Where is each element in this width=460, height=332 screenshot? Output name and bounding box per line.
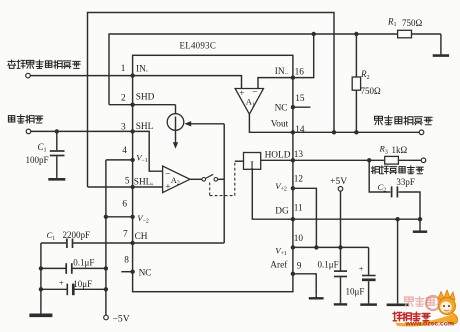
wire black level to pin3 SHL <box>31 130 133 132</box>
junction dot (DG ground 1) <box>395 217 399 221</box>
resistor R3 1kohm <box>385 156 399 164</box>
wire HOLD to C2 <box>369 160 390 192</box>
pin 6 number <box>122 199 127 209</box>
svg-text:13: 13 <box>294 150 304 160</box>
junction dot (Vout / feedback) <box>332 130 336 134</box>
wire R1 to ground drop <box>440 34 442 53</box>
svg-text:1: 1 <box>121 64 126 74</box>
wire A2 output <box>190 178 202 180</box>
label composite video input <box>8 60 80 68</box>
pin 10 number <box>294 234 304 244</box>
terminal composite video input <box>26 73 31 78</box>
svg-text:0.1μF: 0.1μF <box>318 259 339 269</box>
pin 13 number <box>294 150 304 160</box>
switch contact right <box>214 178 218 182</box>
pin 16 name IN- <box>275 67 289 78</box>
svg-text:IN.: IN. <box>136 65 148 75</box>
pin 8 name NC <box>139 269 152 279</box>
junction dot pin6 <box>130 215 134 219</box>
op-amp IC EL4093C box U1 <box>133 55 293 291</box>
terminal -5V <box>104 315 109 320</box>
junction dot pin5 <box>130 185 134 189</box>
svg-text:5: 5 <box>125 177 130 187</box>
pin 3 number <box>121 122 126 132</box>
pin 7 number <box>123 230 128 240</box>
label -5V <box>113 313 130 324</box>
junction dot pin14 <box>291 130 295 134</box>
label video signal output <box>375 116 433 125</box>
wire Vout row to output terminal <box>293 131 419 133</box>
wire left cap column <box>40 243 42 312</box>
wire SHD top rail <box>109 34 441 105</box>
junction dot (top rail / R2) <box>354 32 358 36</box>
pin 14 name Vout <box>271 119 289 129</box>
svg-text:8: 8 <box>124 256 129 266</box>
ground (Aref) <box>309 296 324 299</box>
label C1 2200 <box>47 230 56 242</box>
junction dot pin12 <box>291 186 295 190</box>
pin 9 number <box>297 261 302 271</box>
capacitor 10uF (right electrolytic) <box>362 247 376 303</box>
junction dot pin2 <box>130 103 134 107</box>
junction dot pin1 <box>130 73 134 77</box>
svg-text:+: + <box>59 278 64 288</box>
label 10uF left <box>73 279 92 289</box>
svg-text:SHD: SHD <box>136 93 155 103</box>
label + 10uF right <box>359 264 364 274</box>
junction dot (-5V rail pin6) <box>104 215 108 219</box>
svg-text:+: + <box>150 181 154 188</box>
junction dot pin9 <box>291 272 295 276</box>
junction dot pin13 <box>291 158 295 162</box>
wire HOLD row <box>293 159 385 161</box>
capacitor C1 100pF <box>50 131 65 177</box>
wire pin1 internal to A1 + input <box>133 76 242 89</box>
label +5V <box>330 176 347 187</box>
wire SHD row <box>109 104 176 106</box>
wire pin5 SHL+ row <box>88 186 163 188</box>
wire CH row left <box>41 242 66 244</box>
pin 7 name CH <box>135 232 148 242</box>
svg-text:1kΩ: 1kΩ <box>392 145 408 155</box>
wire pin4 V-1 to -5V rail <box>106 159 133 161</box>
pin 4 number <box>122 146 127 156</box>
label 0.1uF right <box>318 259 339 269</box>
wire current source stem top <box>175 105 177 114</box>
svg-text:Vout: Vout <box>271 119 289 129</box>
svg-text:−: − <box>165 169 170 180</box>
wire feedback loop SHL+ to Vout (top outer) <box>88 13 335 188</box>
ground (10uF right) <box>360 303 377 305</box>
terminal +5V <box>338 187 343 192</box>
svg-text:10: 10 <box>294 234 304 244</box>
svg-text:+: + <box>165 182 170 192</box>
pin 1 number <box>121 64 126 74</box>
watermark dzsc.com logo <box>393 290 458 328</box>
label C1 <box>38 142 47 154</box>
ground (DG) <box>387 303 409 305</box>
wire input to pin1 IN. <box>30 75 132 77</box>
pin 14 number <box>295 125 305 135</box>
wire hold bus vertical <box>223 124 225 243</box>
svg-text:2200pF: 2200pF <box>63 230 91 240</box>
pin 2 number <box>121 93 126 103</box>
op-amp A2 <box>163 166 190 193</box>
label 0.1uF left <box>73 258 94 268</box>
resistor R2 750ohm <box>352 77 360 90</box>
wire +5V drop <box>340 191 342 270</box>
ground (R1) <box>433 53 449 55</box>
pin 15 stub NC <box>293 106 311 108</box>
svg-text:HOLD: HOLD <box>265 151 291 161</box>
svg-text:EL4093C: EL4093C <box>180 40 217 50</box>
wire I box to pin13 HOLD <box>261 159 293 161</box>
terminal video output <box>419 130 424 135</box>
wire R2 branch vertical <box>355 34 357 132</box>
hold control block I <box>244 153 261 173</box>
junction dot (top rail / pin16) <box>312 32 316 36</box>
svg-text:15: 15 <box>295 94 305 104</box>
wire A1 output to Vout pin14 <box>249 114 293 132</box>
label C2 <box>378 182 387 194</box>
pin 15 name NC <box>275 103 288 113</box>
pin 16 number <box>295 67 305 77</box>
capacitor C2 33pF <box>392 186 398 197</box>
capacitor 0.1uF (left) <box>41 263 106 274</box>
wire I box input <box>235 160 244 162</box>
wire C2 net to ground <box>419 219 421 230</box>
svg-text:750Ω: 750Ω <box>361 86 382 96</box>
svg-text:33pF: 33pF <box>396 177 415 187</box>
wire pin3 to A2 inverting input <box>133 131 163 171</box>
pin 4 name V-1 <box>136 152 148 164</box>
svg-text:2: 2 <box>121 93 126 103</box>
svg-text:−5V: −5V <box>113 313 130 324</box>
wire I box bottom to pin11 DG <box>252 169 293 219</box>
pin 12 name V+2 <box>275 181 287 193</box>
svg-text:14: 14 <box>295 125 305 135</box>
op-amp A1 <box>235 87 263 115</box>
junction dot pin3 <box>130 129 134 133</box>
svg-text:DG: DG <box>275 207 289 217</box>
junction dot pin8 <box>130 270 134 274</box>
dashed control linkage <box>209 183 211 196</box>
svg-text:CH: CH <box>135 232 148 242</box>
svg-text:9: 9 <box>297 261 302 271</box>
wire CH row right of cap <box>73 242 132 244</box>
pin 3 name SHL <box>136 122 154 132</box>
svg-text:+5V: +5V <box>330 176 347 187</box>
pin 8 stub NC <box>121 271 132 273</box>
label 2200pF <box>63 230 91 240</box>
pin 10 name V+1 <box>275 245 287 257</box>
wire pin16 internal to A1 - input <box>258 78 293 89</box>
svg-text:11: 11 <box>294 204 303 214</box>
dashed control linkage horizontal <box>210 195 235 197</box>
svg-text:NC: NC <box>139 269 152 279</box>
wire pin9 Aref to ground <box>293 274 316 296</box>
junction dot (C1 tap) <box>55 129 59 133</box>
junction dot (V+ row / +5V) <box>338 245 342 249</box>
pin 13 name HOLD <box>265 151 291 161</box>
label R2 <box>360 69 370 81</box>
junction dot (DG / C2) <box>418 217 422 221</box>
svg-text:6: 6 <box>122 199 127 209</box>
svg-text:100pF: 100pF <box>26 155 49 165</box>
ground (left column) <box>29 312 52 315</box>
svg-text:12: 12 <box>294 175 304 185</box>
pin 2 name SHD <box>136 93 155 103</box>
wire DG row <box>293 218 420 220</box>
junction dot pin4 <box>130 158 134 162</box>
label 33pF <box>396 177 415 187</box>
svg-text:SHL: SHL <box>134 178 152 188</box>
label R1 <box>387 16 397 28</box>
label 10uF right <box>346 286 365 296</box>
current source symbol <box>167 114 184 149</box>
label 750ohm R1 <box>402 18 423 28</box>
capacitor 10uF (left electrolytic) <box>41 284 106 296</box>
label hold control signal <box>371 166 423 174</box>
terminal black level <box>26 129 31 134</box>
pin 5 name SHL+ <box>134 178 155 189</box>
wire DG to lower ground <box>397 219 399 303</box>
svg-text:+: + <box>359 264 364 274</box>
label black level <box>8 115 42 123</box>
wire pin12 to V+ row <box>293 188 317 247</box>
pin 15 number <box>295 94 305 104</box>
svg-text:+: + <box>239 88 244 98</box>
label 1kohm <box>392 145 408 155</box>
svg-text:Aref: Aref <box>270 260 288 271</box>
capacitor 0.1uF (right) <box>334 271 347 303</box>
ground (C1) <box>48 178 65 180</box>
junction dot pin7 <box>130 241 134 245</box>
junction dot (Vout row / R2) <box>354 130 358 134</box>
wire CH row internal <box>133 242 225 244</box>
pin 9 name Aref <box>270 260 288 271</box>
svg-text:www.dzsc.com: www.dzsc.com <box>405 321 454 327</box>
pin 12 number <box>294 175 304 185</box>
junction dot (-5V rail 0.1uF) <box>104 266 108 270</box>
pin 6 name V-2 <box>137 213 149 225</box>
svg-text:10μF: 10μF <box>73 279 92 289</box>
pin 5 number <box>125 177 130 187</box>
wire switch to hold bus <box>218 178 225 180</box>
label EL4093C <box>180 40 217 50</box>
junction dot (-5V rail 10uF) <box>104 287 108 291</box>
svg-text:4: 4 <box>122 146 127 156</box>
switch contact left <box>202 178 206 182</box>
svg-text:0.1μF: 0.1μF <box>73 258 94 268</box>
junction dot pin15 <box>291 105 295 109</box>
label R3 <box>379 144 388 156</box>
ground (C2) <box>413 230 427 232</box>
ground (0.1uF right) <box>334 303 347 305</box>
svg-text:10μF: 10μF <box>346 286 365 296</box>
label 750ohm R2 <box>361 86 382 96</box>
label + 10uF left <box>59 278 64 288</box>
junction dot (left col 0.1uF) <box>39 266 43 270</box>
junction dot (left col 10uF) <box>39 287 43 291</box>
switch lever <box>206 174 214 178</box>
pin 1 name IN. <box>136 65 148 75</box>
svg-text:7: 7 <box>123 230 128 240</box>
junction dot pin10 <box>291 245 295 249</box>
svg-text:16: 16 <box>295 67 305 77</box>
wire -5V rail vertical <box>105 160 107 315</box>
pin 11 number <box>294 204 303 214</box>
junction dot pin11 <box>291 217 295 221</box>
wire pin6 V-2 to -5V rail <box>106 216 133 218</box>
wire arrow into current source <box>184 121 224 126</box>
dashed control linkage vertical <box>234 161 236 195</box>
svg-text:750Ω: 750Ω <box>402 18 423 28</box>
terminal hold control <box>421 158 426 163</box>
svg-text:−: − <box>252 87 257 98</box>
label 100pF <box>26 155 49 165</box>
pin 11 name DG <box>275 207 289 217</box>
wire V+ row pin10 <box>293 246 369 248</box>
wire pin16 to top rail <box>293 34 314 78</box>
junction dot (HOLD / C2) <box>367 158 371 162</box>
capacitor C1 2200pF <box>67 239 73 249</box>
junction dot pin16 <box>291 75 295 79</box>
wire R3 to terminal <box>398 159 421 161</box>
svg-text:NC: NC <box>275 103 288 113</box>
svg-text:SHL: SHL <box>136 122 154 132</box>
pin 8 number <box>124 256 129 266</box>
junction dot (V+ row / pin12 drop) <box>314 245 318 249</box>
svg-text:3: 3 <box>121 122 126 132</box>
wire C2 to ground drop <box>399 192 420 219</box>
resistor R1 750ohm <box>398 30 412 38</box>
